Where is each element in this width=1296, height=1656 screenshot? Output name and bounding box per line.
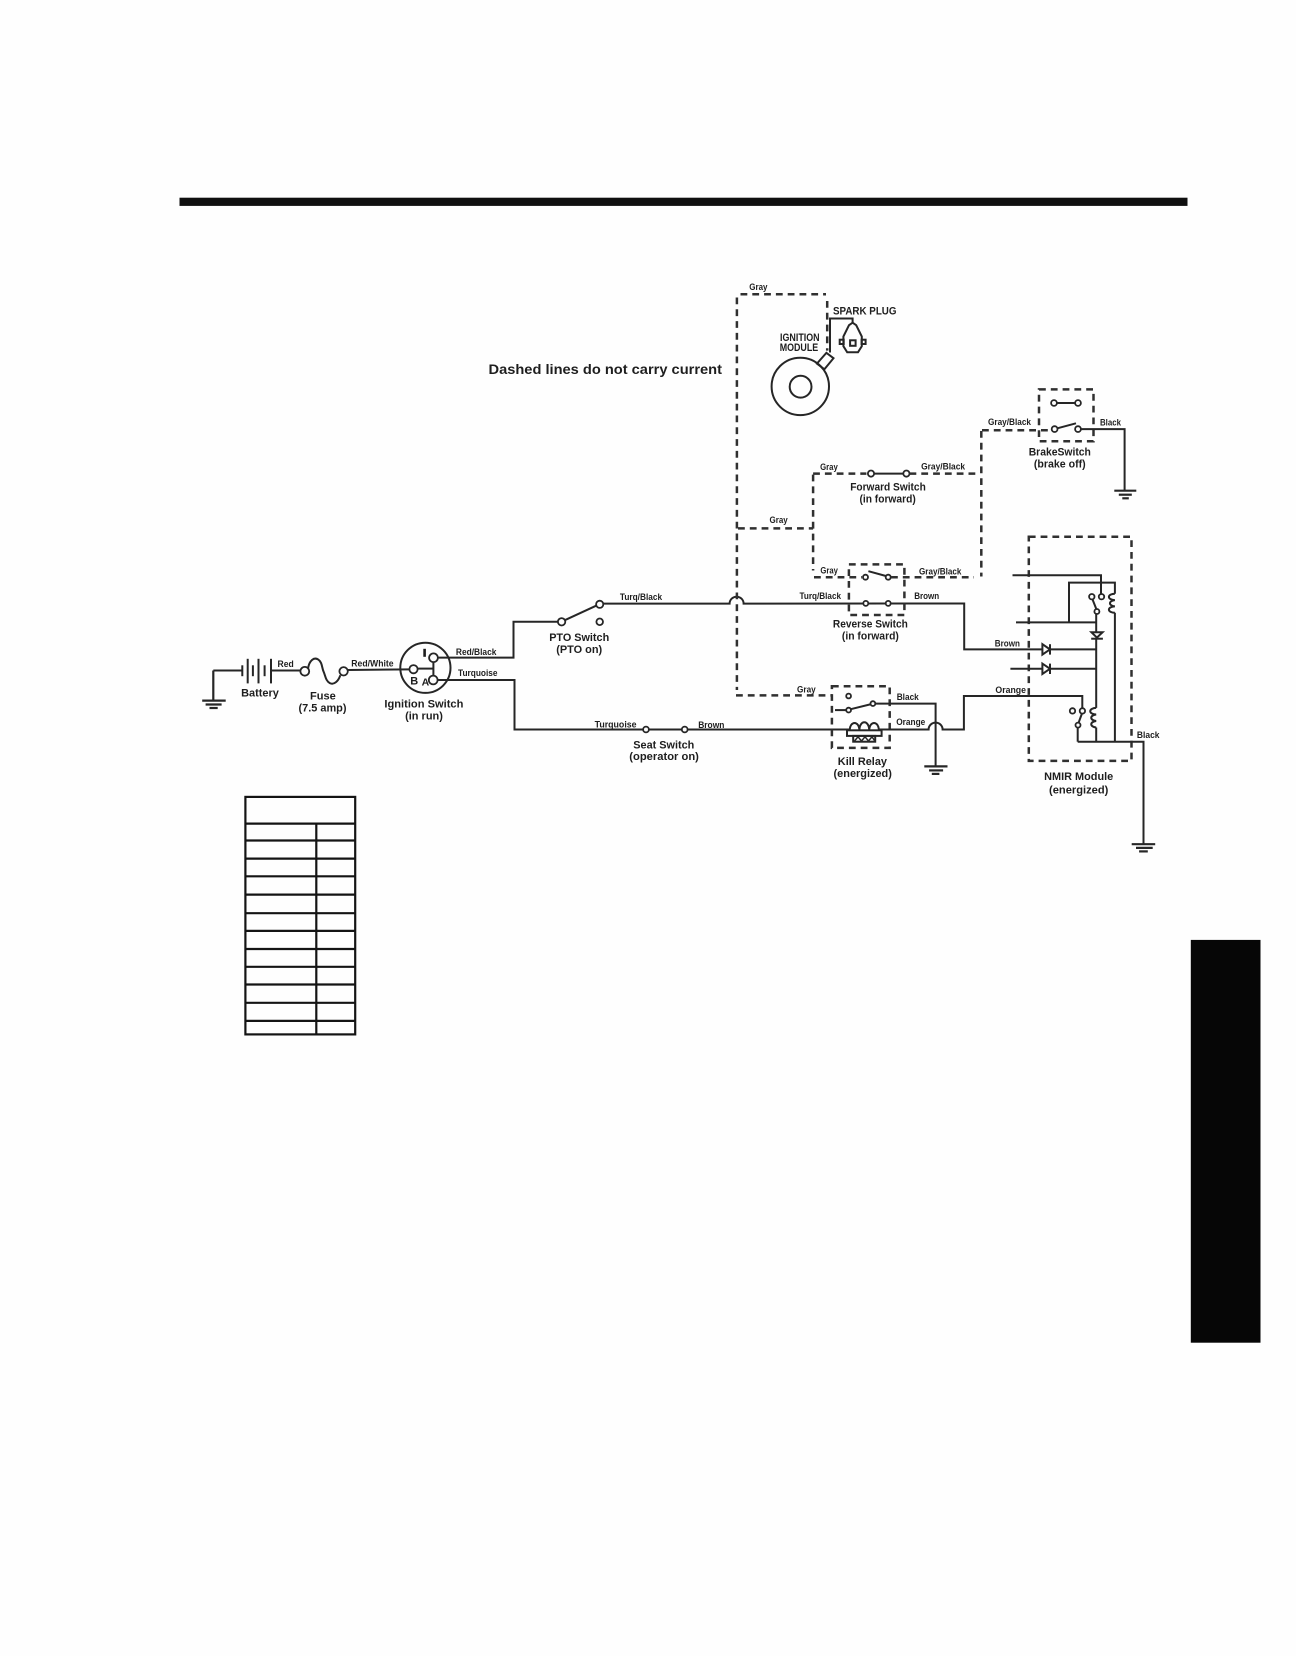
NMIR coil 2 (lower) (1090, 708, 1096, 728)
gray/black dashed wire: right vertical (980, 431, 983, 577)
terminal B (409, 665, 417, 673)
gray dashed wire: ignition module box top edge (741, 293, 827, 296)
wire Black: brake switch to ground (1081, 429, 1125, 491)
svg-text:(energized): (energized) (834, 768, 893, 780)
wire Turq/Black: PTO switch to reverse switch, hop over gray dashed line (603, 597, 964, 604)
wire Brown: seat switch to kill relay coil (688, 729, 850, 731)
svg-text:B: B (410, 676, 418, 688)
ground (NMIR) (1132, 844, 1156, 851)
module terminal (kill tab) (817, 353, 834, 370)
svg-text:Orange: Orange (896, 717, 925, 728)
gray/black dashed wire: reverse switch to right vertical (891, 576, 974, 579)
svg-text:(in forward): (in forward) (842, 631, 899, 643)
svg-text:Orange: Orange (995, 685, 1026, 696)
NMIR module box (dashed) (1029, 537, 1132, 761)
NMIR relay 2 contacts (1070, 708, 1085, 727)
svg-text:Gray: Gray (770, 515, 789, 526)
svg-text:PTO Switch: PTO Switch (549, 632, 609, 644)
gray/black dashed wire: to brake switch (982, 429, 1050, 432)
ground (battery) (202, 671, 226, 709)
svg-text:Black: Black (897, 692, 920, 703)
svg-text:(operator on): (operator on) (629, 751, 699, 763)
gray dashed wire: long left vertical (Gray) (736, 298, 739, 691)
terminal I (429, 653, 438, 662)
wire Brown: reverse switch down and right to NMIR (964, 603, 1042, 650)
svg-text:Gray: Gray (749, 282, 768, 293)
kill relay box (dashed) (832, 686, 890, 748)
wire Red/White: fuse to ignition switch (348, 668, 410, 671)
NMIR relay 1 common vertical (1095, 614, 1097, 632)
NMIR bridge upper (1069, 583, 1115, 623)
fuse F1 (7.5 amp) (300, 659, 347, 684)
svg-text:BrakeSwitch: BrakeSwitch (1029, 446, 1091, 458)
wire Orange: kill relay coil to NMIR, hop over black wire (879, 696, 1082, 730)
svg-text:A: A (422, 677, 430, 689)
wire Turquoise: A terminal down to seat switch (438, 680, 644, 730)
kill relay unused contact (846, 694, 851, 699)
NMIR bridge wire (1016, 621, 1096, 623)
svg-text:Seat Switch: Seat Switch (633, 739, 694, 751)
gray dashed wire: ignition module box right edge (826, 301, 829, 351)
svg-text:Red: Red (278, 659, 294, 670)
svg-text:Brown: Brown (995, 639, 1020, 650)
diode D2 on Brown wire (1042, 644, 1050, 654)
wire Brown continues to relay 1 vertical (1050, 648, 1096, 650)
gray dashed wire: forward switch left lead down (812, 475, 815, 571)
battery (242, 659, 271, 684)
svg-text:(in run): (in run) (405, 711, 443, 723)
svg-text:MODULE: MODULE (780, 342, 819, 354)
NMIR stub wire to relay 1 contact (1013, 575, 1102, 594)
svg-text:Turquoise: Turquoise (595, 719, 637, 730)
ignition module M1 (772, 353, 834, 415)
wire Red: battery to fuse (271, 670, 301, 672)
reverse switch lower contacts on Turq/Black wire (863, 601, 890, 606)
svg-text:Red/White: Red/White (351, 658, 393, 669)
NMIR coil 1 lead down (1114, 613, 1116, 742)
wire Black: NMIR bottom to ground (1078, 742, 1144, 845)
svg-text:Gray: Gray (820, 462, 838, 473)
svg-text:SPARK PLUG: SPARK PLUG (833, 306, 897, 318)
gray dashed wire: into reverse switch (Gray) (814, 576, 862, 579)
NMIR relay 1 contacts (1089, 594, 1104, 614)
PTO switch SW2 (PTO on) (558, 601, 603, 626)
svg-text:(energized): (energized) (1049, 784, 1109, 796)
brake switch upper contact (closed) (1051, 400, 1081, 406)
ground (kill relay) (924, 766, 947, 774)
ignition switch SW1 (in run) (400, 643, 450, 693)
wire Red/Black: I terminal up to PTO switch (438, 622, 558, 658)
kill relay switch blade (835, 701, 875, 712)
svg-text:Red/Black: Red/Black (456, 647, 497, 658)
reverse switch box (dashed) (849, 564, 905, 615)
NMIR stub wire 3 with diode (1010, 668, 1096, 670)
svg-text:Gray: Gray (797, 685, 816, 696)
brake switch lower contact with blade (1052, 423, 1081, 432)
svg-text:(in forward): (in forward) (859, 493, 916, 505)
svg-text:Forward Switch: Forward Switch (850, 482, 926, 494)
diode D3 (1042, 664, 1050, 674)
forward switch SW4 (in forward) (868, 471, 910, 477)
black sidebar tab (1191, 940, 1261, 1343)
svg-text:(PTO on): (PTO on) (556, 644, 602, 656)
wire: module terminal to spark plug (830, 319, 853, 353)
pin label I (423, 649, 426, 657)
seat switch SW3 (operator on) (643, 727, 688, 733)
svg-text:Turquoise: Turquoise (458, 668, 498, 679)
NMIR coil 1 (upper) (1109, 594, 1115, 613)
svg-text:Turq/Black: Turq/Black (800, 591, 842, 602)
svg-text:(7.5 amp): (7.5 amp) (299, 702, 347, 714)
svg-text:Gray: Gray (820, 566, 838, 577)
svg-text:Turq/Black: Turq/Black (620, 592, 663, 603)
top rule bar (180, 198, 1188, 206)
svg-text:Ignition Switch: Ignition Switch (384, 699, 463, 711)
svg-text:Fuse: Fuse (310, 690, 336, 702)
ground (brake switch) (1114, 491, 1136, 499)
svg-text:NMIR Module: NMIR Module (1044, 771, 1113, 783)
svg-text:Brown: Brown (914, 591, 939, 602)
terminal A (429, 676, 438, 685)
svg-text:Gray/Black: Gray/Black (921, 461, 966, 472)
diode D1 (vertical) (1091, 632, 1103, 639)
wire battery negative to ground (213, 670, 242, 672)
svg-text:Gray/Black: Gray/Black (919, 567, 962, 578)
svg-text:Black: Black (1100, 418, 1122, 429)
wire Black: kill relay to ground (875, 704, 935, 767)
kill relay coil K1 (847, 722, 882, 741)
spark plug P1 (840, 323, 866, 353)
NMIR relay 2 common down (1077, 728, 1079, 742)
svg-text:(brake off): (brake off) (1034, 458, 1086, 470)
svg-text:Battery: Battery (241, 688, 280, 700)
gray/black dashed wire: forward switch to right vertical (910, 472, 979, 475)
NMIR coil 2 lead down (1095, 728, 1097, 742)
wiring table (empty) (245, 797, 355, 1035)
gray dashed wire: forward switch top edge left (813, 472, 866, 475)
svg-text:Kill Relay: Kill Relay (838, 756, 888, 768)
svg-text:Gray/Black: Gray/Black (988, 417, 1032, 428)
svg-text:Black: Black (1137, 730, 1160, 741)
brake switch box (dashed) (1039, 389, 1094, 441)
NMIR vertical: diode to lower coil (1095, 639, 1097, 708)
svg-text:Reverse Switch: Reverse Switch (833, 619, 908, 631)
svg-text:Dashed lines do not carry curr: Dashed lines do not carry current (489, 361, 723, 377)
gray dashed wire: bottom corner to kill relay (736, 694, 832, 697)
reverse switch upper contact with blade (open) (863, 571, 891, 580)
gray dashed wire: branch to forward switch (738, 527, 813, 530)
